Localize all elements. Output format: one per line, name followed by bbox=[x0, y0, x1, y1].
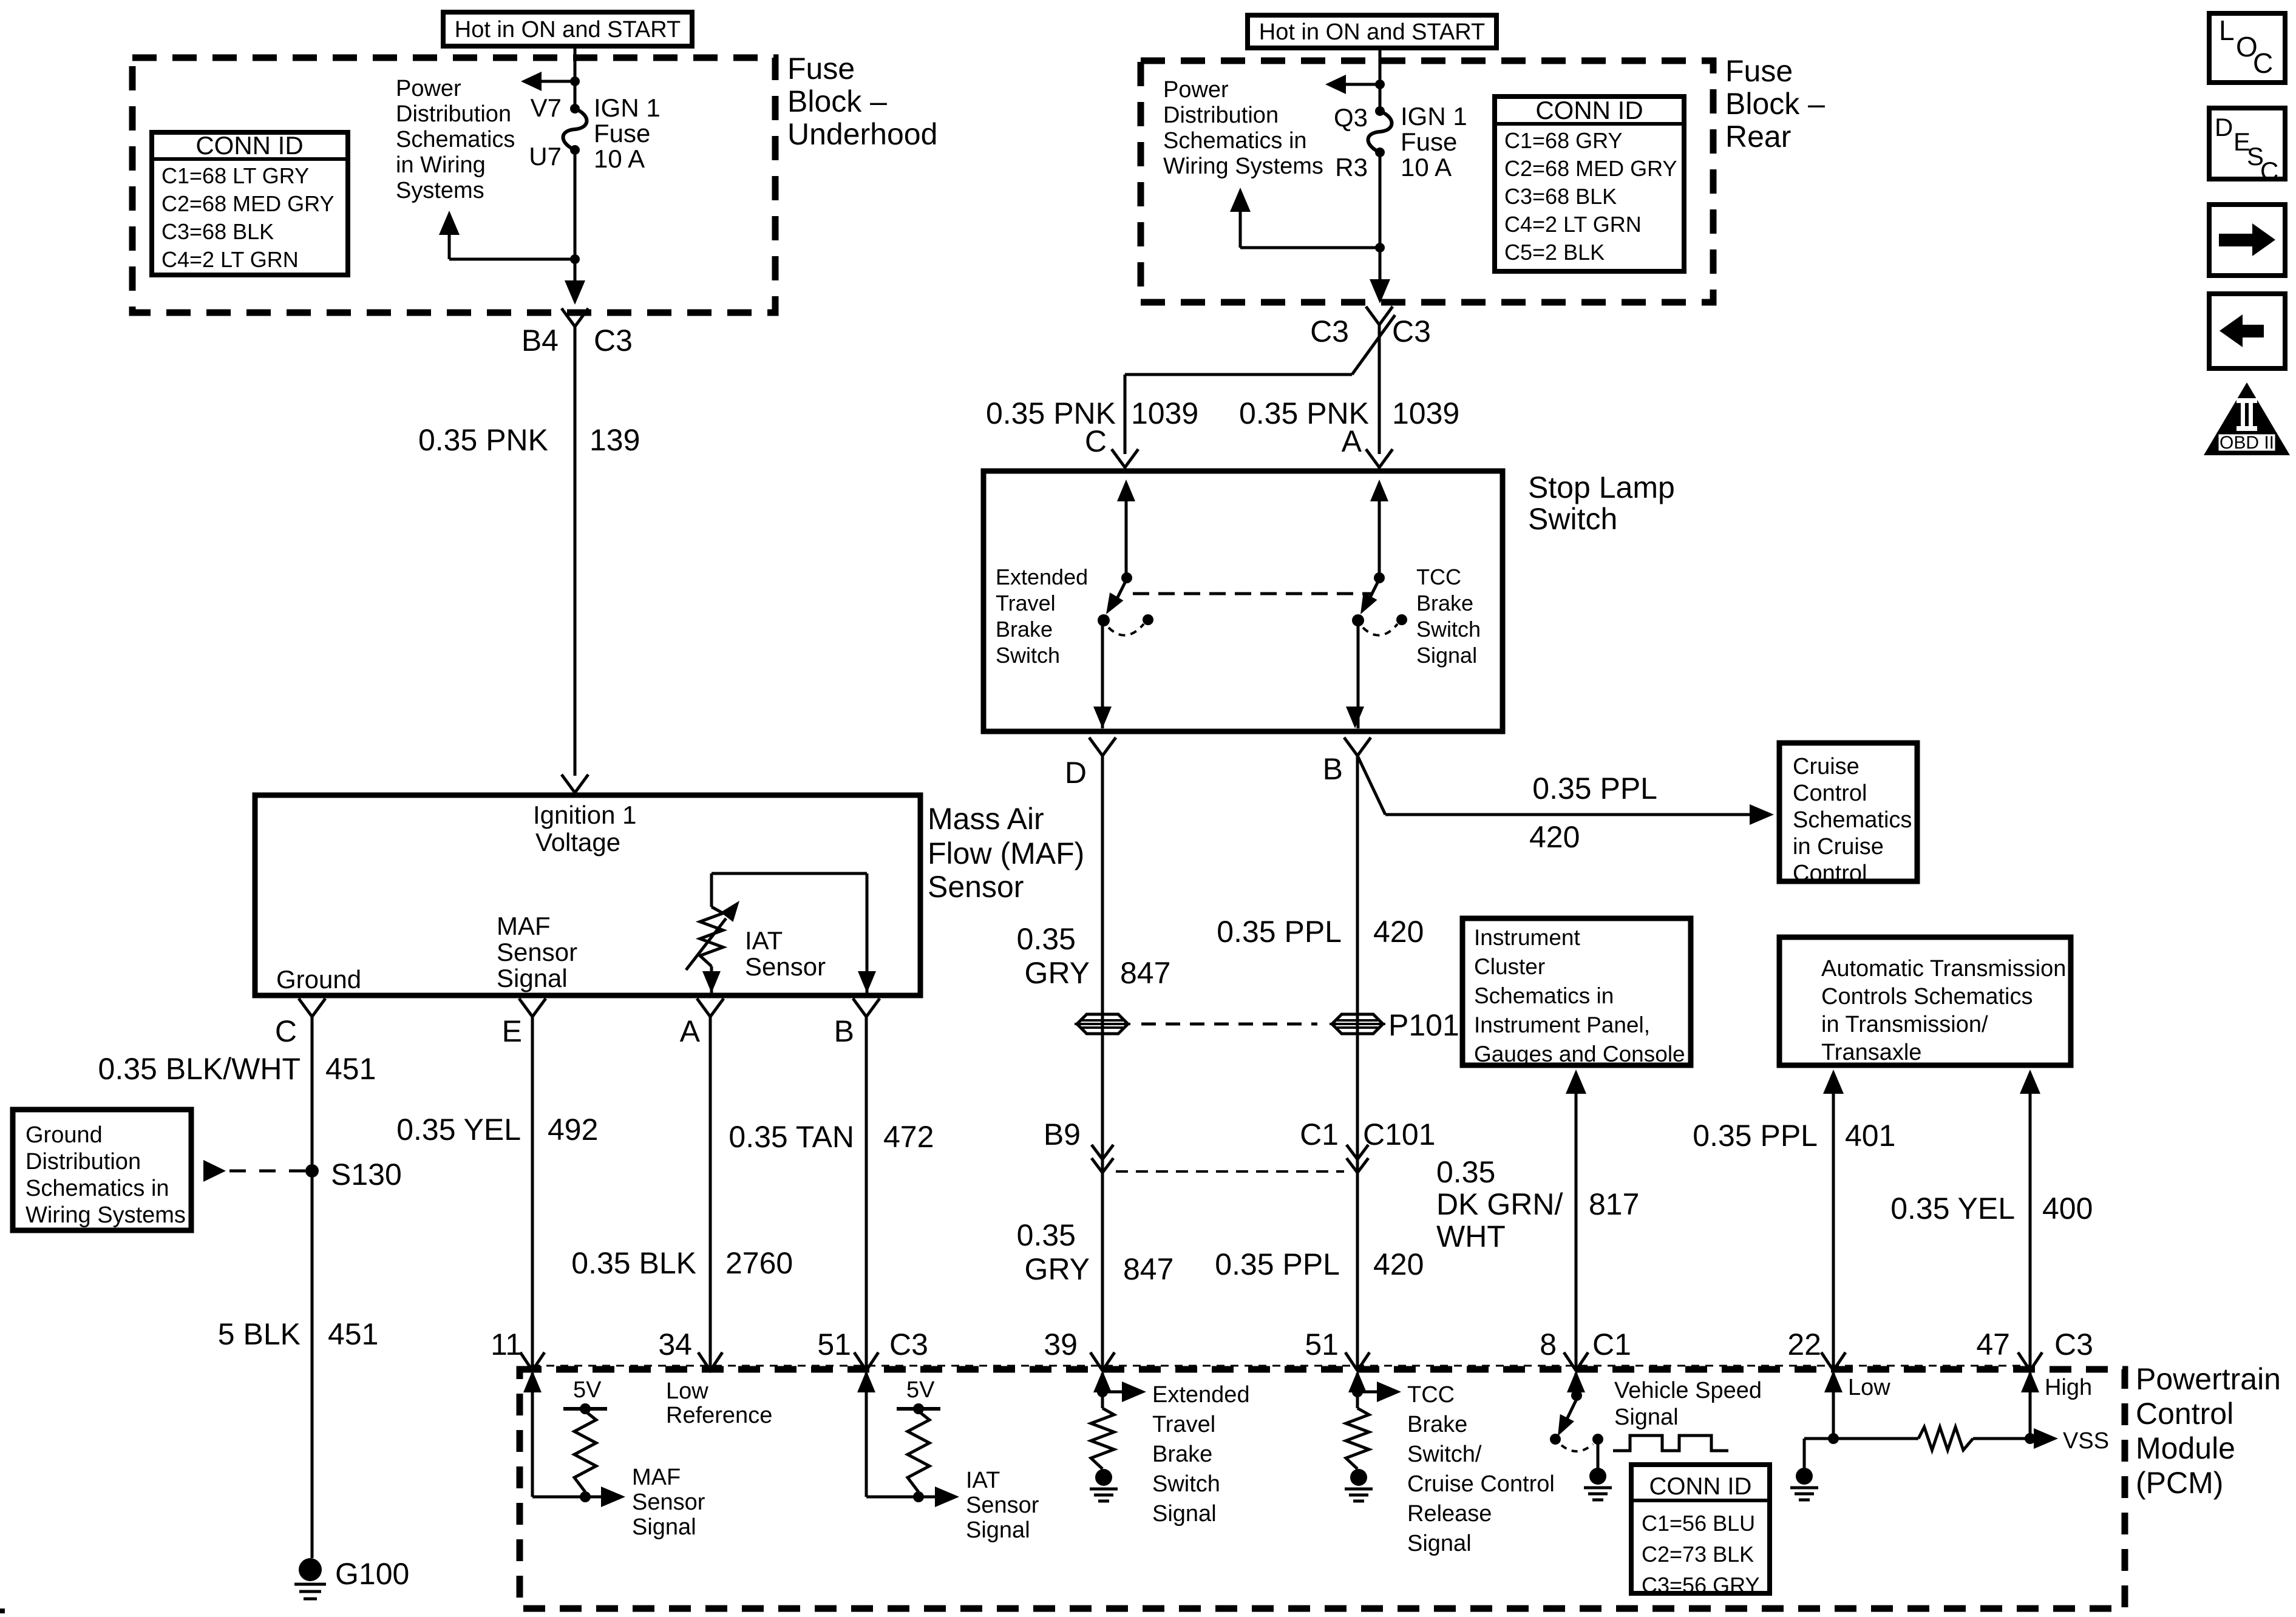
svg-text:847: 847 bbox=[1120, 956, 1170, 990]
svg-text:817: 817 bbox=[1589, 1187, 1639, 1221]
svg-text:C3: C3 bbox=[2054, 1327, 2093, 1361]
svg-text:Cluster: Cluster bbox=[1474, 954, 1545, 979]
svg-text:5V: 5V bbox=[906, 1377, 935, 1403]
svg-text:2760: 2760 bbox=[725, 1246, 793, 1280]
svg-text:Schematics: Schematics bbox=[396, 127, 515, 152]
svg-text:C: C bbox=[2253, 47, 2273, 79]
svg-text:51: 51 bbox=[817, 1327, 851, 1361]
svg-text:Ignition 1: Ignition 1 bbox=[533, 801, 636, 829]
svg-text:0.35 PPL: 0.35 PPL bbox=[1217, 915, 1342, 949]
svg-text:492: 492 bbox=[548, 1113, 598, 1147]
svg-text:Ground: Ground bbox=[25, 1122, 103, 1148]
svg-text:22: 22 bbox=[1787, 1327, 1821, 1361]
svg-text:B: B bbox=[1323, 752, 1343, 786]
svg-text:TCC: TCC bbox=[1407, 1382, 1455, 1408]
svg-text:420: 420 bbox=[1529, 820, 1580, 854]
svg-text:IAT: IAT bbox=[745, 926, 783, 955]
svg-text:Fuse: Fuse bbox=[594, 119, 650, 147]
svg-text:C2=68 MED GRY: C2=68 MED GRY bbox=[161, 191, 334, 216]
svg-text:Sensor: Sensor bbox=[632, 1490, 705, 1515]
svg-text:0.35: 0.35 bbox=[1436, 1155, 1495, 1189]
svg-text:C4=2 LT GRN: C4=2 LT GRN bbox=[161, 247, 299, 272]
svg-text:Switch: Switch bbox=[1416, 617, 1481, 642]
svg-text:Sensor: Sensor bbox=[966, 1493, 1039, 1518]
svg-text:47: 47 bbox=[1976, 1327, 2010, 1361]
svg-text:GRY: GRY bbox=[1025, 1252, 1090, 1286]
svg-text:0.35 PPL: 0.35 PPL bbox=[1693, 1119, 1818, 1153]
svg-text:G100: G100 bbox=[335, 1557, 409, 1591]
svg-text:401: 401 bbox=[1845, 1119, 1895, 1153]
svg-text:D: D bbox=[2215, 113, 2233, 141]
svg-text:in Wiring: in Wiring bbox=[396, 152, 486, 178]
svg-text:Brake: Brake bbox=[1407, 1412, 1467, 1437]
svg-text:TCC: TCC bbox=[1416, 564, 1461, 589]
svg-text:CONN ID: CONN ID bbox=[1649, 1473, 1752, 1500]
svg-text:0.35: 0.35 bbox=[1017, 922, 1076, 956]
svg-text:C3=68 BLK: C3=68 BLK bbox=[161, 219, 274, 244]
svg-text:Fuse: Fuse bbox=[787, 52, 855, 86]
svg-text:U7: U7 bbox=[529, 142, 562, 171]
svg-text:E: E bbox=[502, 1014, 522, 1048]
svg-text:39: 39 bbox=[1044, 1327, 1078, 1361]
svg-text:0.35 PNK: 0.35 PNK bbox=[418, 423, 548, 457]
svg-text:Schematics in: Schematics in bbox=[25, 1176, 169, 1201]
svg-text:Vehicle Speed: Vehicle Speed bbox=[1614, 1378, 1762, 1403]
svg-text:Brake: Brake bbox=[1152, 1442, 1212, 1467]
svg-text:Fuse: Fuse bbox=[1401, 127, 1457, 156]
svg-text:C101: C101 bbox=[1363, 1117, 1436, 1151]
svg-text:472: 472 bbox=[883, 1120, 934, 1154]
svg-text:Sensor: Sensor bbox=[497, 938, 577, 966]
svg-text:Hot in ON and START: Hot in ON and START bbox=[1259, 19, 1485, 45]
svg-text:5 BLK: 5 BLK bbox=[218, 1317, 301, 1351]
svg-text:Extended: Extended bbox=[1152, 1382, 1250, 1408]
svg-text:847: 847 bbox=[1123, 1252, 1173, 1286]
svg-text:10 A: 10 A bbox=[1401, 153, 1452, 181]
svg-text:Voltage: Voltage bbox=[535, 828, 620, 856]
svg-text:Automatic Transmission: Automatic Transmission bbox=[1821, 956, 2066, 981]
svg-text:0.35 YEL: 0.35 YEL bbox=[1890, 1192, 2015, 1225]
svg-text:C4=2 LT GRN: C4=2 LT GRN bbox=[1504, 212, 1642, 237]
svg-text:Wiring Systems: Wiring Systems bbox=[1163, 154, 1323, 179]
svg-text:C: C bbox=[1085, 424, 1107, 458]
svg-text:Extended: Extended bbox=[996, 564, 1088, 589]
svg-text:Switch/: Switch/ bbox=[1407, 1442, 1482, 1467]
svg-text:Signal: Signal bbox=[497, 964, 568, 992]
svg-text:Hot in ON and START: Hot in ON and START bbox=[455, 17, 681, 42]
svg-text:420: 420 bbox=[1373, 1247, 1424, 1281]
svg-text:Signal: Signal bbox=[966, 1517, 1030, 1543]
svg-text:Signal: Signal bbox=[1152, 1501, 1217, 1527]
svg-text:P101: P101 bbox=[1388, 1008, 1459, 1042]
svg-text:Sensor: Sensor bbox=[745, 952, 826, 981]
svg-text:Schematics: Schematics bbox=[1793, 807, 1912, 833]
svg-text:400: 400 bbox=[2042, 1192, 2093, 1225]
svg-text:420: 420 bbox=[1373, 915, 1424, 949]
svg-text:451: 451 bbox=[328, 1317, 378, 1351]
svg-text:Stop Lamp: Stop Lamp bbox=[1528, 470, 1675, 504]
svg-text:10 A: 10 A bbox=[594, 144, 645, 173]
svg-text:C3=56 GRY: C3=56 GRY bbox=[1642, 1573, 1759, 1598]
svg-text:in Cruise: in Cruise bbox=[1793, 834, 1884, 859]
svg-text:C2=68 MED GRY: C2=68 MED GRY bbox=[1504, 156, 1677, 181]
svg-text:Signal: Signal bbox=[1407, 1531, 1472, 1556]
svg-text:C3: C3 bbox=[1392, 314, 1431, 348]
svg-text:Schematics in: Schematics in bbox=[1474, 983, 1614, 1008]
svg-text:Travel: Travel bbox=[996, 591, 1056, 615]
svg-text:Flow (MAF): Flow (MAF) bbox=[928, 836, 1084, 870]
svg-text:DK GRN/: DK GRN/ bbox=[1436, 1187, 1563, 1221]
svg-text:Distribution: Distribution bbox=[1163, 103, 1279, 128]
svg-text:A: A bbox=[680, 1014, 701, 1048]
svg-text:Wiring Systems: Wiring Systems bbox=[25, 1202, 186, 1228]
svg-text:in Transmission/: in Transmission/ bbox=[1821, 1012, 1988, 1037]
svg-text:CONN ID: CONN ID bbox=[1535, 96, 1643, 124]
svg-text:C3: C3 bbox=[889, 1327, 928, 1361]
svg-text:Rear: Rear bbox=[1725, 120, 1791, 154]
svg-text:Controls Schematics: Controls Schematics bbox=[1821, 984, 2033, 1009]
svg-text:0.35 PPL: 0.35 PPL bbox=[1215, 1247, 1340, 1281]
svg-text:Power: Power bbox=[1163, 77, 1229, 103]
svg-text:C: C bbox=[275, 1014, 297, 1048]
svg-text:Ground: Ground bbox=[276, 965, 361, 994]
svg-text:Power: Power bbox=[396, 76, 461, 101]
svg-text:Control: Control bbox=[1793, 781, 1867, 806]
svg-text:Switch: Switch bbox=[1152, 1471, 1220, 1497]
svg-text:11: 11 bbox=[491, 1327, 522, 1361]
svg-text:Instrument: Instrument bbox=[1474, 925, 1581, 950]
svg-text:B4: B4 bbox=[521, 324, 559, 358]
svg-text:5V: 5V bbox=[573, 1377, 602, 1403]
svg-text:34: 34 bbox=[658, 1327, 692, 1361]
svg-text:Control: Control bbox=[2136, 1397, 2233, 1431]
svg-text:Control: Control bbox=[1793, 861, 1867, 886]
svg-text:Mass Air: Mass Air bbox=[928, 802, 1044, 836]
svg-text:Signal: Signal bbox=[632, 1514, 696, 1540]
svg-text:(PCM): (PCM) bbox=[2136, 1466, 2223, 1500]
svg-text:Distribution: Distribution bbox=[25, 1149, 141, 1175]
svg-text:C5=2 BLK: C5=2 BLK bbox=[1504, 240, 1605, 265]
svg-text:C1=68 LT GRY: C1=68 LT GRY bbox=[161, 163, 309, 188]
svg-text:Instrument Panel,: Instrument Panel, bbox=[1474, 1012, 1650, 1037]
svg-text:R3: R3 bbox=[1335, 153, 1368, 181]
svg-text:Release: Release bbox=[1407, 1501, 1492, 1527]
svg-text:L: L bbox=[2219, 15, 2235, 46]
svg-text:Gauges and Console: Gauges and Console bbox=[1474, 1042, 1685, 1066]
svg-text:Fuse: Fuse bbox=[1725, 54, 1793, 88]
svg-text:C1=68 GRY: C1=68 GRY bbox=[1504, 128, 1622, 153]
svg-text:C3: C3 bbox=[594, 324, 633, 358]
svg-text:OBD II: OBD II bbox=[2220, 433, 2274, 453]
svg-text:Brake: Brake bbox=[1416, 591, 1473, 615]
svg-text:High: High bbox=[2045, 1375, 2092, 1400]
svg-text:D: D bbox=[1065, 756, 1087, 790]
svg-text:Signal: Signal bbox=[1614, 1405, 1679, 1430]
svg-text:Block –: Block – bbox=[787, 84, 887, 118]
svg-text:WHT: WHT bbox=[1436, 1219, 1506, 1253]
svg-text:139: 139 bbox=[589, 423, 640, 457]
svg-text:A: A bbox=[1342, 424, 1362, 458]
svg-text:IGN 1: IGN 1 bbox=[594, 93, 661, 122]
svg-text:B9: B9 bbox=[1044, 1117, 1081, 1151]
svg-text:0.35 BLK: 0.35 BLK bbox=[571, 1246, 696, 1280]
svg-text:0.35 TAN: 0.35 TAN bbox=[729, 1120, 854, 1154]
svg-text:V7: V7 bbox=[531, 93, 562, 122]
svg-text:0.35 BLK/WHT: 0.35 BLK/WHT bbox=[98, 1052, 301, 1086]
svg-text:Underhood: Underhood bbox=[787, 117, 937, 151]
svg-text:Low: Low bbox=[666, 1378, 708, 1404]
svg-text:Travel: Travel bbox=[1152, 1412, 1215, 1437]
svg-text:Brake: Brake bbox=[996, 617, 1053, 642]
svg-text:0.35: 0.35 bbox=[1017, 1218, 1076, 1252]
svg-text:451: 451 bbox=[325, 1052, 376, 1086]
svg-text:C: C bbox=[2260, 157, 2278, 185]
svg-text:C1=56 BLU: C1=56 BLU bbox=[1642, 1511, 1755, 1536]
svg-text:Q3: Q3 bbox=[1334, 103, 1368, 132]
svg-text:Transaxle: Transaxle bbox=[1821, 1040, 1921, 1065]
svg-text:MAF: MAF bbox=[497, 912, 551, 940]
svg-text:Reference: Reference bbox=[666, 1403, 772, 1428]
svg-text:0.35 YEL: 0.35 YEL bbox=[396, 1113, 521, 1147]
svg-text:Low: Low bbox=[1848, 1375, 1890, 1400]
svg-text:Signal: Signal bbox=[1416, 643, 1477, 668]
svg-text:Distribution: Distribution bbox=[396, 101, 511, 127]
svg-text:IGN 1: IGN 1 bbox=[1401, 102, 1467, 131]
svg-text:C1: C1 bbox=[1300, 1117, 1339, 1151]
svg-text:1039: 1039 bbox=[1131, 396, 1198, 430]
svg-text:C2=73 BLK: C2=73 BLK bbox=[1642, 1542, 1754, 1567]
svg-text:GRY: GRY bbox=[1025, 956, 1090, 990]
svg-text:Systems: Systems bbox=[396, 178, 484, 203]
svg-text:Switch: Switch bbox=[996, 643, 1060, 668]
svg-text:8: 8 bbox=[1540, 1327, 1557, 1361]
svg-text:Block –: Block – bbox=[1725, 87, 1825, 121]
svg-text:S130: S130 bbox=[331, 1158, 402, 1192]
svg-text:Switch: Switch bbox=[1528, 502, 1617, 536]
svg-text:0.35 PPL: 0.35 PPL bbox=[1532, 771, 1657, 805]
svg-text:B: B bbox=[834, 1014, 854, 1048]
svg-text:CONN ID: CONN ID bbox=[195, 131, 303, 160]
svg-text:Sensor: Sensor bbox=[928, 870, 1024, 904]
svg-text:Powertrain: Powertrain bbox=[2136, 1362, 2281, 1396]
svg-text:Module: Module bbox=[2136, 1431, 2235, 1465]
svg-text:C1: C1 bbox=[1592, 1327, 1631, 1361]
svg-text:Cruise Control: Cruise Control bbox=[1407, 1471, 1555, 1497]
svg-text:IAT: IAT bbox=[966, 1468, 1000, 1493]
svg-text:C3=68 BLK: C3=68 BLK bbox=[1504, 184, 1617, 209]
svg-text:51: 51 bbox=[1305, 1327, 1339, 1361]
svg-text:C3: C3 bbox=[1310, 314, 1349, 348]
svg-text:VSS: VSS bbox=[2063, 1428, 2109, 1454]
svg-text:Cruise: Cruise bbox=[1793, 754, 1860, 779]
svg-text:MAF: MAF bbox=[632, 1465, 681, 1490]
svg-text:Schematics in: Schematics in bbox=[1163, 128, 1307, 154]
svg-text:1039: 1039 bbox=[1392, 396, 1459, 430]
